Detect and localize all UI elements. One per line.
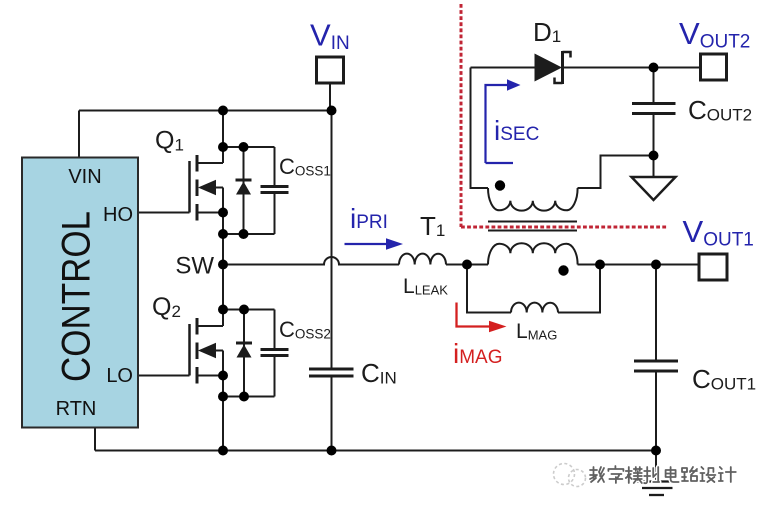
control block U1 bbox=[22, 158, 138, 428]
wire Q1 drain bbox=[222, 111, 224, 164]
node Q1 source bbox=[218, 208, 228, 218]
wire LMAG branch right riser bbox=[558, 265, 600, 313]
secondary polarity dot bbox=[495, 180, 505, 190]
transistor Q2 bbox=[190, 318, 224, 384]
Q2 body stub with arrow bbox=[213, 350, 223, 352]
Q1 body stub with arrow bbox=[213, 187, 223, 189]
node Q2 bottom link left bbox=[218, 392, 228, 402]
node Q2 top link left bbox=[218, 305, 228, 315]
node ground rail CIN bbox=[327, 446, 337, 456]
transformer secondary winding bbox=[488, 188, 578, 211]
node COUT1 top bbox=[651, 260, 661, 270]
svg-text:LO: LO bbox=[106, 365, 133, 387]
wire secondary left leg bbox=[471, 68, 489, 189]
node top rail / Q1 drain bbox=[218, 106, 228, 116]
node Q2 top link diode bbox=[239, 305, 249, 315]
wire top rail VIN bbox=[79, 110, 332, 112]
VOUT1 terminal bbox=[699, 254, 727, 280]
wire LMAG branch left riser bbox=[467, 265, 511, 313]
svg-text:VIN: VIN bbox=[68, 166, 101, 188]
node A LLEAK/LMAG bbox=[462, 260, 472, 270]
VOUT2 terminal bbox=[701, 54, 727, 80]
current arrow iSEC bbox=[486, 79, 540, 163]
inductor LLEAK bbox=[399, 254, 446, 265]
wire Q1 body diode branch bbox=[243, 147, 245, 234]
ground GND2 bbox=[634, 482, 678, 496]
node ground rail Q2 bbox=[218, 446, 228, 456]
Q1 channel segments bbox=[196, 155, 199, 221]
wire SW with hop over VIN rail bbox=[223, 257, 399, 264]
wire Q1 source to SW bbox=[222, 188, 224, 265]
wire LO bbox=[138, 375, 190, 377]
Q2 drain stub bbox=[199, 325, 224, 327]
ground GND1 bbox=[632, 177, 676, 200]
wire secondary right leg bbox=[578, 156, 654, 189]
svg-text:RTN: RTN bbox=[56, 398, 97, 420]
node D1 cathode / COUT2 bbox=[649, 63, 659, 73]
Q2 source stub bbox=[199, 375, 224, 377]
wire Q2 top link bbox=[223, 309, 275, 311]
svg-text:CONTROL: CONTROL bbox=[55, 211, 99, 382]
node Q1 bottom link diode bbox=[239, 229, 249, 239]
node Q2 source bbox=[218, 371, 228, 381]
Q1 drain stub bbox=[199, 162, 224, 164]
Q1 gate line bbox=[188, 161, 191, 213]
wire HO bbox=[138, 212, 190, 214]
svg-text:SW: SW bbox=[175, 253, 214, 280]
capacitor COUT2 bbox=[632, 104, 676, 114]
node COUT2 bottom bbox=[649, 151, 659, 161]
wire Q2 source to ground rail bbox=[222, 351, 224, 451]
wire Q2 body diode branch bbox=[243, 310, 245, 397]
wire bottom ground rail bbox=[95, 450, 656, 452]
body diode of Q1 bbox=[236, 180, 252, 195]
current arrow iPRI bbox=[345, 203, 404, 250]
wire control RTN stub bbox=[94, 428, 96, 451]
inductor LMAG bbox=[511, 303, 558, 313]
current arrow iMAG bbox=[453, 303, 507, 370]
wire VIN terminal stub bbox=[329, 83, 331, 111]
wire COUT1 branch bbox=[655, 265, 657, 451]
node LMAG right bbox=[595, 260, 605, 270]
wire VIN rail vertical to CIN bbox=[331, 111, 333, 368]
Q2 channel segments bbox=[196, 318, 199, 384]
wire D1 cathode to VOUT2 bbox=[563, 67, 701, 69]
node Q1 bottom link left bbox=[218, 229, 228, 239]
capacitor COSS2 bbox=[261, 350, 289, 356]
wire Coss1 branch bbox=[274, 147, 276, 234]
wire Q2 bottom link bbox=[223, 396, 275, 398]
primary polarity dot bbox=[558, 265, 568, 275]
svg-text:HO: HO bbox=[103, 204, 133, 226]
node top rail / VIN bbox=[327, 106, 337, 116]
wire D1 anode net bbox=[471, 67, 535, 69]
wire LLEAK to node A bbox=[446, 264, 488, 266]
VIN terminal bbox=[317, 57, 344, 83]
node Q1 top link diode bbox=[239, 142, 249, 152]
wire Coss2 branch bbox=[274, 310, 276, 397]
transformer primary winding bbox=[488, 243, 578, 264]
wire main secondary-side output run bbox=[578, 264, 700, 266]
wire Q1 bottom link bbox=[223, 233, 275, 235]
capacitor COSS1 bbox=[261, 187, 289, 193]
capacitor CIN bbox=[309, 369, 354, 376]
diode D1 (schottky) bbox=[533, 17, 571, 84]
transformer core bbox=[488, 222, 577, 231]
isolation boundary (red dashed) bbox=[461, 4, 667, 227]
Q2 gate line bbox=[188, 324, 191, 376]
wire control VIN drop bbox=[78, 111, 80, 158]
Q1 source stub bbox=[199, 212, 224, 214]
wire Q1 top link bbox=[223, 146, 275, 148]
node SW bbox=[218, 260, 228, 270]
wire Q2 drain bbox=[222, 265, 224, 327]
watermark logo bbox=[554, 464, 586, 487]
node ground rail COUT1 bbox=[651, 446, 661, 456]
body diode of Q2 bbox=[236, 343, 252, 358]
wire GND2 stub bbox=[655, 451, 657, 482]
transistor Q1 bbox=[190, 155, 224, 221]
capacitor COUT1 bbox=[634, 361, 678, 371]
watermark text bbox=[590, 466, 736, 483]
node Q1 top link left bbox=[218, 142, 228, 152]
wire GND1 stub bbox=[653, 156, 655, 178]
wire CIN to ground rail bbox=[331, 378, 333, 451]
node Q2 bottom link diode bbox=[239, 392, 249, 402]
wire COUT2 branch bbox=[653, 68, 655, 156]
